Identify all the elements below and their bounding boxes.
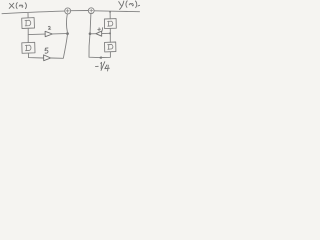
node B junction dot (89, 32, 92, 35)
adder U2 (summing node) (88, 8, 94, 14)
wire: arrow to corner and up to node B (89, 35, 99, 58)
node junction on output wire (109, 11, 111, 13)
wire: node B to multiplier a1 (91, 33, 95, 35)
label a2 value -1/4 (95, 62, 109, 71)
wire: multiplier b2 right then up to node A (51, 35, 67, 58)
multiplier b1 (gain triangle) (45, 31, 52, 36)
node C junction tick (109, 32, 111, 34)
wire: delay D1 to delay D2 (27, 29, 29, 43)
wire: output wire down into delay D3 (109, 12, 111, 19)
node y(n) output label (119, 1, 140, 10)
delay D1 box (22, 18, 35, 29)
delay D4 box (105, 42, 116, 52)
multiplier a1 (gain triangle, points left) (96, 31, 102, 36)
wire: delay D2 down and right to multiplier b2 (28, 53, 43, 58)
wire: multiplier b1 to node A (53, 33, 66, 35)
multiplier b2 (gain triangle) (44, 55, 51, 61)
adder U1 (summing node) (65, 8, 71, 14)
delay D3 box (104, 19, 116, 29)
node A junction dot (66, 32, 69, 35)
wire: tap to multiplier b1 (28, 33, 44, 36)
label above a1 (98, 28, 103, 32)
arrowhead on feedback wire (98, 56, 101, 59)
node x(n) input label (9, 3, 26, 9)
label above b1 (48, 26, 51, 29)
wire: input top wire (2, 11, 64, 14)
delay D2 box (22, 42, 35, 53)
wire: drop from input wire into delay D1 (27, 13, 29, 17)
wire: multiplier a1 to right vertical (102, 32, 110, 34)
wire: delay D3 to delay D4 crossing tap (109, 29, 111, 43)
label b2 value 5 (45, 48, 48, 53)
wire: delay D4 down then left to node D (101, 52, 110, 58)
wire: adder U2 down to node B (89, 14, 92, 33)
paper background (0, 0, 150, 80)
wire: adder U2 to output (94, 10, 139, 13)
wire: adder U1 down to node A (66, 14, 69, 32)
wire: adder U1 to adder U2 (71, 10, 88, 12)
